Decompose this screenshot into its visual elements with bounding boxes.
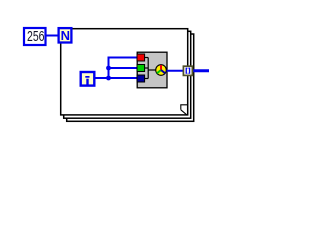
tunnel bracket left: [186, 68, 188, 74]
color wheel circle: [156, 65, 167, 76]
wire i to junction: [95, 77, 110, 79]
tunnel bracket right: [188, 68, 190, 74]
wire vertical branch: [108, 58, 110, 79]
iteration terminal i: [81, 72, 95, 86]
loop count terminal N: [59, 28, 72, 42]
auto-indexing tunnel: [183, 66, 192, 75]
for-loop middle frame 2: [64, 31, 191, 118]
wire bottom branch to B: [109, 77, 138, 79]
node icon internal lines: [145, 58, 157, 79]
blue spoke: [161, 70, 165, 73]
for-loop back frame 3: [67, 34, 194, 121]
i glyph stem: [86, 79, 88, 85]
wire 256 to N: [45, 35, 58, 37]
svg-text:256: 256: [27, 29, 45, 45]
wire top branch to R: [108, 57, 138, 59]
green spoke: [157, 70, 161, 73]
G input square: [137, 65, 145, 72]
svg-text:N: N: [61, 28, 70, 43]
i glyph dot: [85, 76, 89, 78]
R input square: [137, 54, 145, 61]
for-loop front frame 1: [61, 29, 188, 115]
junction dot lower: [106, 76, 111, 81]
fold corner (page curl) bottom-right of front frame: [181, 105, 188, 115]
numeric constant 256: [24, 28, 46, 45]
wire middle branch to G: [109, 67, 138, 69]
output array wire tunnel to edge: [192, 69, 209, 72]
RGB to Color node body: [137, 52, 167, 88]
junction dot upper: [106, 66, 111, 71]
red spoke: [160, 65, 162, 70]
B input square: [137, 75, 145, 82]
output wire node to tunnel: [167, 70, 184, 72]
